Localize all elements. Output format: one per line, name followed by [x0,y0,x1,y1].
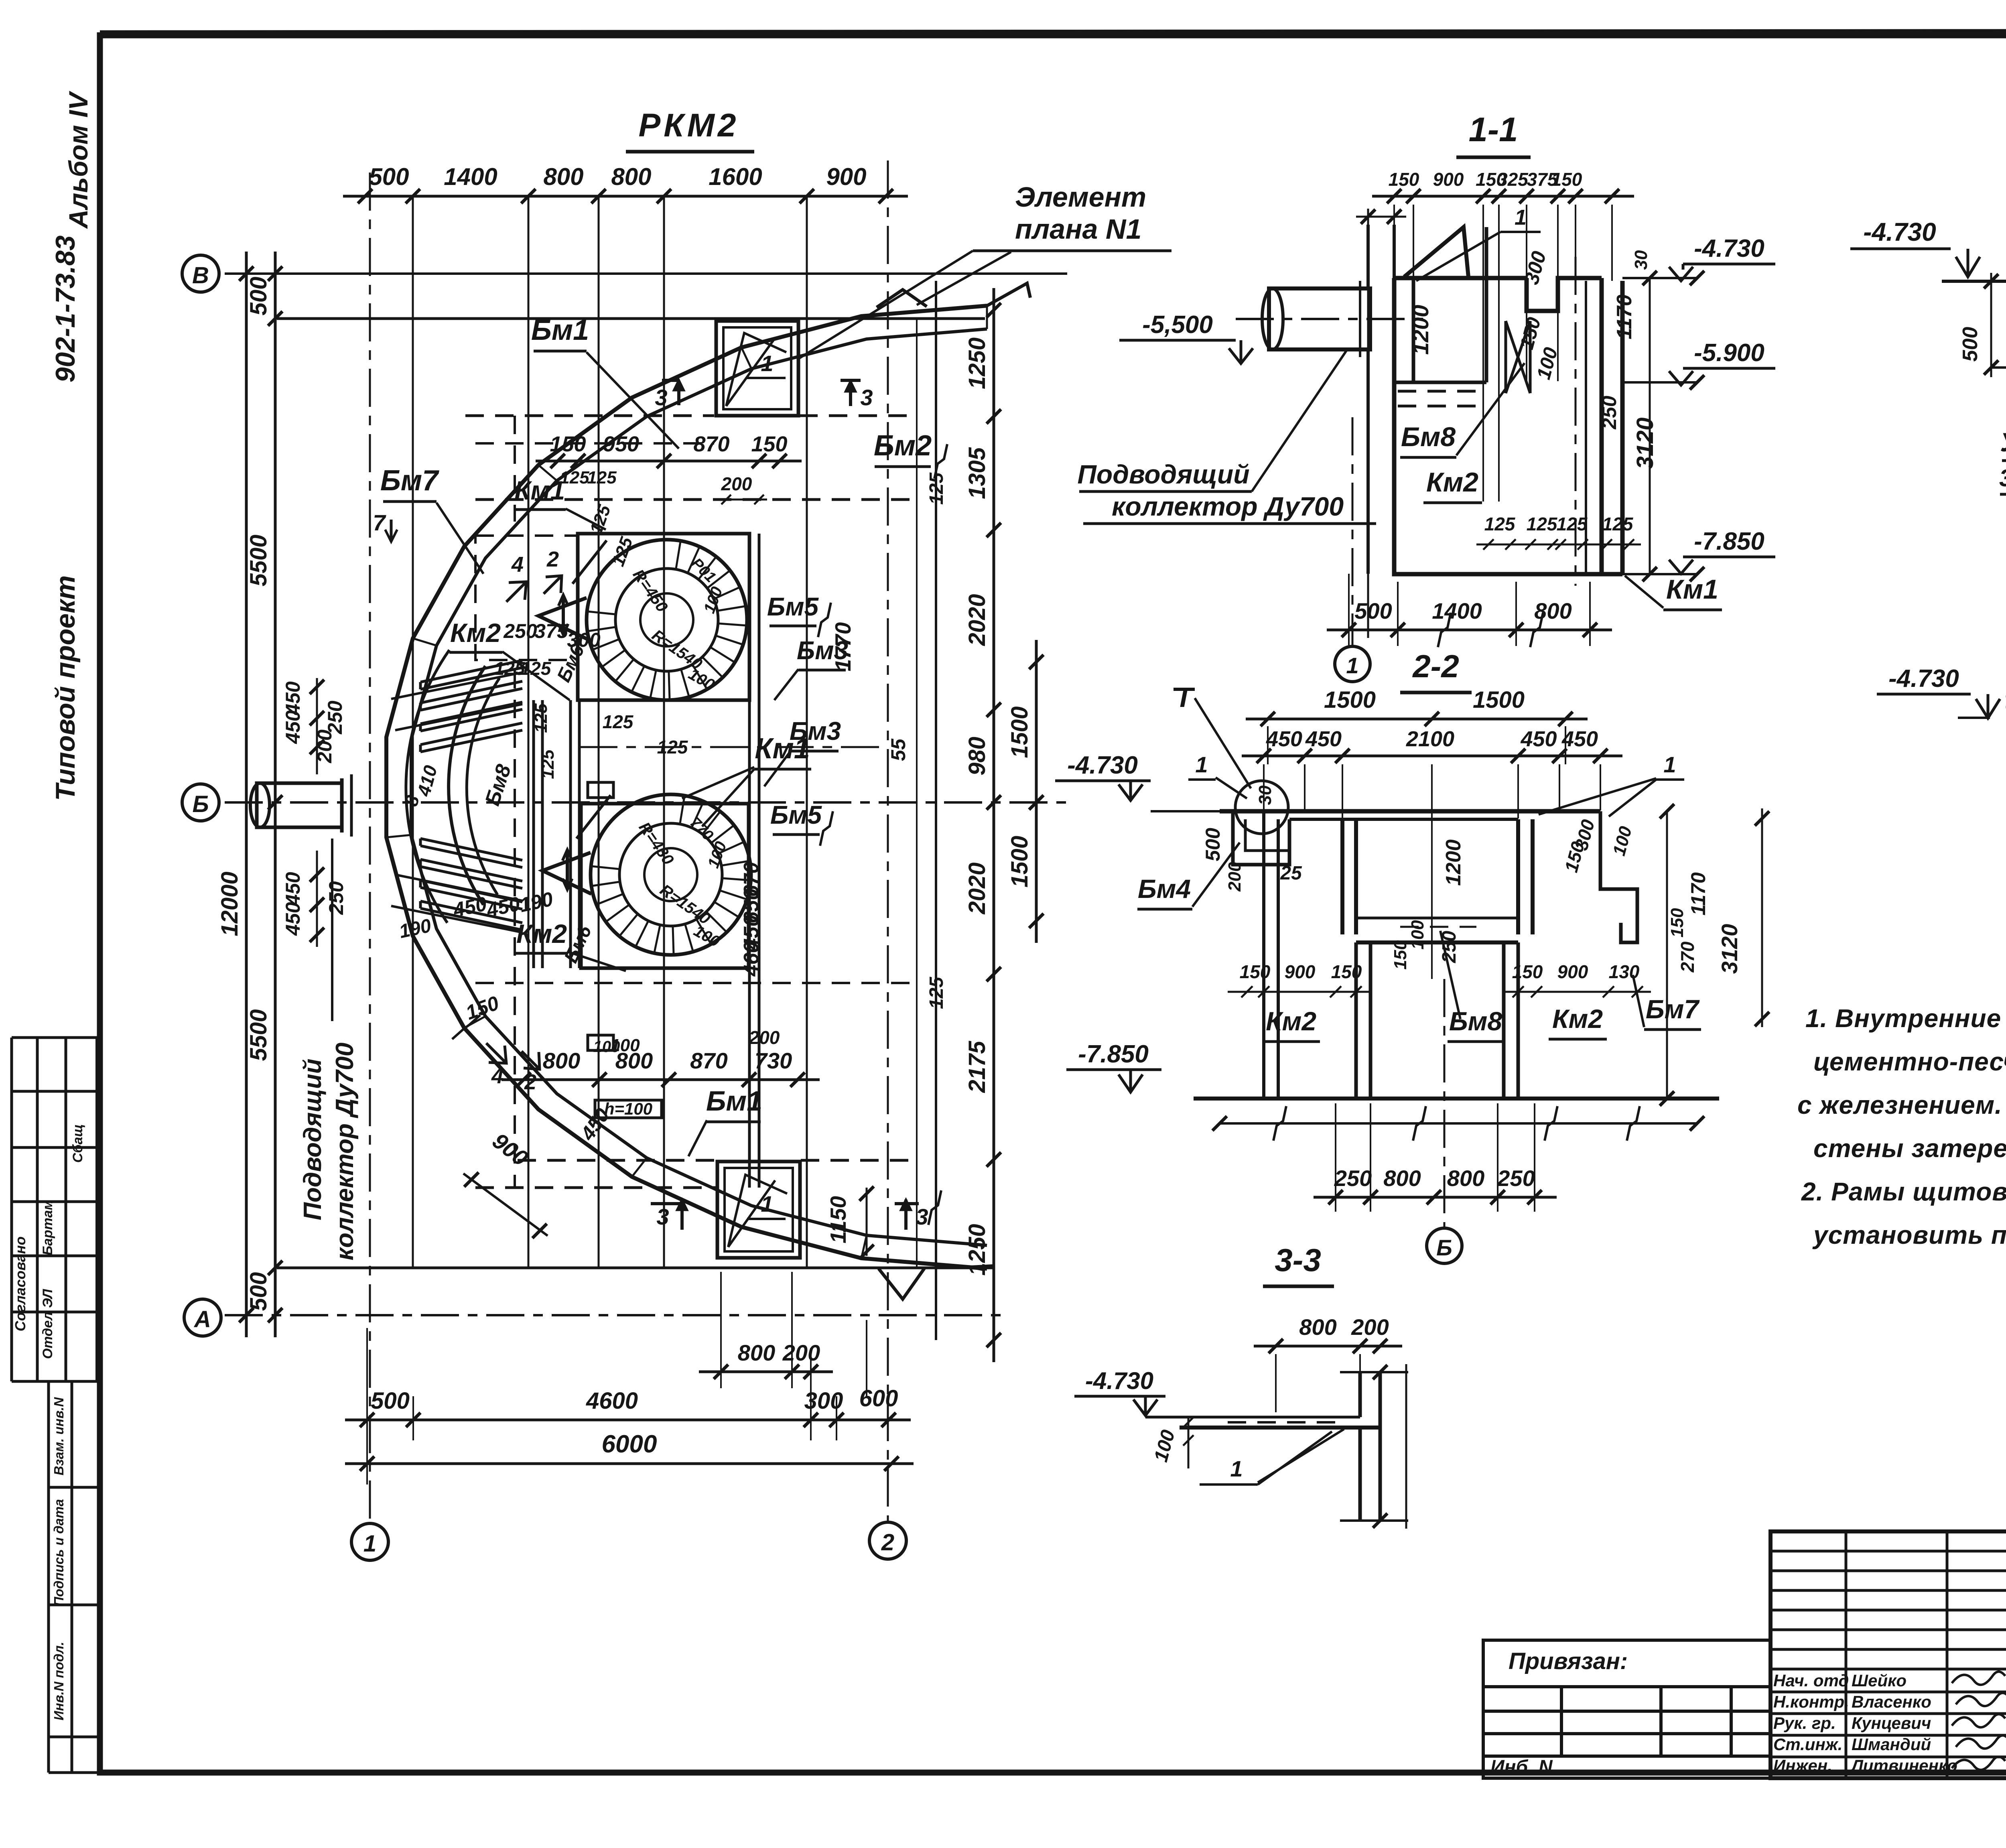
svg-text:Бм1: Бм1 [531,314,589,346]
svg-text:1: 1 [1346,653,1358,678]
svg-text:125: 125 [1484,514,1516,534]
dashed wall lines bottom row [518,1159,717,1162]
svg-text:Отдел ЭЛ: Отдел ЭЛ [40,1289,55,1359]
section cut arrows 4 and 2 lower [486,1043,506,1063]
svg-text:800: 800 [543,1048,580,1073]
svg-text:Бм7: Бм7 [1646,994,1700,1024]
svg-text:30: 30 [1631,250,1651,270]
axis circle A [184,1299,221,1336]
svg-text:Бартам: Бартам [40,1200,55,1255]
svg-text:200: 200 [1351,1314,1389,1340]
title block: left table Privyazan [1483,1640,1770,1778]
section 3-3 body [1145,1416,1360,1419]
svg-text:с железнением. На участке ус: с железнением. На участке установки реше… [1797,1091,2006,1119]
svg-text:1400: 1400 [444,163,497,190]
plan vertical axis 1 [369,173,371,1523]
svg-text:1170: 1170 [1613,294,1636,339]
svg-text:1. Внутренние поверхности ло: 1. Внутренние поверхности лотков оштукат… [1805,1004,2006,1033]
svg-text:450: 450 [1305,727,1342,751]
svg-text:1: 1 [363,1531,376,1557]
svg-text:1-1: 1-1 [1469,111,1518,149]
lower row dashed line [475,982,917,984]
svg-text:500: 500 [371,1388,410,1414]
node I detail circle in 2-2 [1235,781,1288,834]
svg-text:1: 1 [1663,752,1676,777]
svg-text:250: 250 [325,881,347,915]
svg-text:870: 870 [690,1048,727,1073]
svg-text:Нач. отд: Нач. отд [1773,1671,1849,1690]
plan left dims 500 5500 5500 500 [246,252,282,1337]
svg-text:-7.850: -7.850 [1078,1040,1149,1068]
curved inlet wall arcs [449,666,485,905]
svg-text:Инб. N: Инб. N [1490,1757,1553,1778]
svg-text:500: 500 [369,163,409,190]
section 3-3 dims 800 200 [1254,1314,1402,1353]
svg-text:Н.контр.: Н.контр. [1773,1692,1849,1711]
svg-text:Бм4: Бм4 [1138,874,1191,904]
svg-text:Привязан:: Привязан: [1509,1648,1628,1674]
section marker 3 up (bottom right) [904,1200,908,1230]
svg-text:-4.730: -4.730 [1888,665,1959,692]
svg-text:375: 375 [534,620,569,642]
h=100 box [595,1100,662,1118]
svg-text:Бм1: Бм1 [706,1085,762,1117]
dashed corridor verticals [514,416,516,522]
central dividing wall between volute rooms [534,700,579,968]
svg-text:1150: 1150 [826,1196,851,1243]
svg-text:800: 800 [611,163,651,190]
mid horizontal chain between rooms [579,746,888,748]
svg-text:600: 600 [859,1385,898,1411]
svg-text:125: 125 [1602,514,1634,534]
svg-text:800: 800 [1447,1166,1484,1191]
svg-text:Подводящий: Подводящий [1077,459,1249,489]
inlet pipe at axis B [257,783,342,827]
axis circle B [182,784,219,821]
section 2-2 floor [1194,1097,1719,1101]
3120 dim left of detail I (section 2-2 column) [1761,808,1763,1027]
svg-text:270: 270 [1677,941,1698,973]
arc bottom end beak [879,1266,994,1299]
svg-text:3: 3 [655,385,667,410]
plan vertical axis 2 [887,160,889,1523]
svg-text:900: 900 [1557,961,1588,982]
svg-text:1200: 1200 [1408,305,1433,355]
svg-text:3120: 3120 [1632,417,1658,469]
svg-text:450: 450 [282,710,304,744]
svg-text:-4.730: -4.730 [1863,217,1936,246]
T junction blocks on central wall [588,782,613,798]
svg-text:30: 30 [1255,785,1275,805]
svg-text:1: 1 [761,1191,773,1216]
svg-text:250: 250 [503,620,537,642]
svg-text:1305: 1305 [964,447,990,499]
svg-text:Бм2: Бм2 [874,430,932,462]
section 2-2 dim 1500 1500 [1246,687,1588,726]
svg-text:коллектор Ду700: коллектор Ду700 [331,1042,359,1260]
svg-text:150: 150 [1389,169,1419,190]
svg-text:125: 125 [926,977,947,1009]
svg-text:500: 500 [246,1272,272,1311]
upper volute scroll [538,540,747,700]
svg-text:250: 250 [324,701,346,735]
upper volute room [578,534,749,700]
svg-text:-5,500: -5,500 [1142,311,1213,339]
svg-text:800: 800 [543,163,583,190]
svg-text:1500: 1500 [1007,706,1033,758]
upper left equipment room dashed [475,536,578,660]
svg-text:Бм3: Бм3 [790,717,841,745]
svg-text:1500: 1500 [1007,836,1033,887]
svg-text:1170: 1170 [1687,872,1710,916]
svg-text:2-2: 2-2 [1412,648,1459,684]
svg-text:500: 500 [246,277,272,316]
svg-text:Бм5: Бм5 [770,800,822,829]
svg-text:450: 450 [1266,727,1302,751]
svg-text:125: 125 [1527,514,1558,534]
plan bottom wall chord line [277,1267,995,1269]
svg-text:-7.850: -7.850 [1694,528,1764,555]
svg-text:РКМ2: РКМ2 [638,107,739,144]
svg-text:-4.730: -4.730 [1067,751,1138,779]
svg-text:Инжен.: Инжен. [1773,1756,1832,1775]
svg-text:800: 800 [1299,1314,1336,1340]
svg-text:800: 800 [1383,1166,1421,1191]
section 2-2 top slab [1220,809,1600,814]
embedded brace X in section 1-1 [1506,321,1530,393]
svg-text:150: 150 [1512,961,1543,982]
svg-text:125: 125 [538,749,558,779]
svg-text:450: 450 [282,872,304,906]
svg-text:30: 30 [2002,692,2006,713]
plan outer wall faceted arc band [386,306,987,1269]
svg-text:125: 125 [520,658,552,679]
svg-text:Инв.N подл.: Инв.N подл. [51,1642,66,1720]
bottom small dims 150 900 150 left [1228,991,1372,993]
plan right main dim chain [964,288,1001,1362]
125 dims bottom of 1-1 [1476,544,1641,546]
svg-text:450: 450 [1520,727,1557,751]
svg-text:2100: 2100 [1406,727,1454,751]
svg-text:Взам. инв.N: Взам. инв.N [51,1397,66,1475]
svg-text:150: 150 [1391,940,1410,970]
svg-text:5500: 5500 [246,534,272,586]
bottom small dims 150 900 130 right [1502,991,1651,993]
levels right of section 1-1 [1622,277,1697,279]
svg-text:125: 125 [926,472,947,505]
svg-text:-4.730: -4.730 [1085,1367,1153,1394]
bottom dim chain 250 800 800 250 [1314,1166,1557,1204]
section cut arrows 4 and 2 upper room [506,582,526,602]
svg-text:Альбом IV: Альбом IV [63,91,93,229]
svg-text:3: 3 [656,1204,669,1229]
svg-text:Ст.инж.: Ст.инж. [1773,1735,1842,1754]
inlet pipe in section 1-1 [1269,288,1370,349]
svg-text:980: 980 [964,737,990,776]
svg-text:7: 7 [373,510,386,535]
axis circle 2 bottom [869,1522,906,1559]
dashed wall lines top row [465,414,714,417]
svg-text:Подводящий: Подводящий [299,1058,327,1220]
svg-text:I: I [1180,682,1188,713]
svg-text:Б: Б [1436,1235,1452,1260]
svg-text:500: 500 [1202,828,1224,861]
svg-text:1600: 1600 [709,163,762,190]
svg-text:100: 100 [593,1038,620,1056]
svg-text:Кунцевич: Кунцевич [1852,1714,1931,1732]
svg-text:Согласовано: Согласовано [12,1237,28,1332]
svg-text:800: 800 [738,1340,775,1365]
plan axis line V [225,272,1067,275]
axis circle 1 below section 1-1 [1335,646,1370,682]
svg-text:Км2: Км2 [1552,1004,1603,1034]
svg-text:3: 3 [860,385,873,410]
svg-text:Типовой проект: Типовой проект [50,575,81,801]
svg-text:200: 200 [749,1027,780,1048]
svg-text:250: 250 [1334,1166,1372,1191]
svg-text:Б: Б [192,791,209,817]
bottom window opening frame [717,1162,800,1258]
corbel left 2-2 [1233,811,1289,865]
svg-text:902-1-73.83: 902-1-73.83 [50,235,81,382]
svg-text:125: 125 [587,468,617,487]
svg-text:200: 200 [721,473,752,494]
svg-text:Км1: Км1 [1666,574,1718,605]
svg-text:100: 100 [1408,920,1427,950]
svg-text:900: 900 [826,163,866,190]
svg-text:55: 55 [887,738,910,761]
svg-text:1500: 1500 [1324,687,1376,713]
svg-text:Шейко: Шейко [1852,1671,1907,1690]
svg-text:Сбащ: Сбащ [70,1124,85,1163]
svg-text:1250: 1250 [964,1224,990,1275]
svg-text:450: 450 [282,902,304,936]
svg-text:12000: 12000 [217,871,243,936]
svg-text:Км2: Км2 [450,618,501,648]
svg-text:-5.900: -5.900 [1694,339,1764,367]
right wall of volute rooms vertical [749,534,759,1188]
svg-text:1200: 1200 [1442,839,1465,886]
svg-text:1: 1 [1195,752,1208,777]
svg-text:1: 1 [1230,1456,1243,1481]
svg-text:150: 150 [1240,961,1271,982]
svg-text:Км1: Км1 [514,475,565,505]
section 1-1 left small dim [1356,216,1406,218]
svg-text:2: 2 [546,547,559,571]
axis circle V [182,255,219,292]
svg-text:250: 250 [1497,1166,1535,1191]
svg-text:цементно-песчаным раствором: цементно-песчаным раствором состава 1:2 [1813,1047,2006,1076]
plan top dimension chain [343,163,908,203]
svg-text:950: 950 [603,432,639,456]
plan bottom dims [699,1340,833,1379]
svg-text:установить по механическим ч: установить по механическим чертежам. [1812,1220,2006,1249]
svg-text:Бм3: Бм3 [797,636,848,665]
section marker 3 (top right) [849,379,852,406]
svg-text:В: В [192,262,209,288]
svg-text:900: 900 [1285,961,1316,982]
svg-text:150: 150 [1551,169,1582,190]
arc top end beak [877,283,1030,307]
left margin column Vzam/Podpis/Inv [49,1381,97,1773]
svg-text:2175: 2175 [964,1041,990,1093]
axis circle B below 2-2 [1427,1228,1462,1263]
svg-text:3: 3 [916,1204,928,1229]
svg-text:325: 325 [1497,169,1529,190]
svg-text:Элемент: Элемент [1015,181,1146,213]
plan construction grid verticals [413,196,807,1268]
svg-text:Км2: Км2 [516,919,567,948]
svg-text:25: 25 [1280,863,1302,884]
svg-text:Км2: Км2 [1266,1006,1316,1036]
svg-text:200: 200 [1225,862,1245,892]
svg-text:1500: 1500 [1473,687,1525,713]
svg-text:200: 200 [782,1340,820,1365]
right step 2-2 [1600,811,1637,942]
svg-text:450: 450 [1561,727,1598,751]
svg-text:4: 4 [511,552,524,577]
svg-text:2: 2 [881,1529,894,1556]
svg-text:6000: 6000 [602,1430,657,1458]
svg-text:2. Рамы щитовых затворов и р: 2. Рамы щитовых затворов и ремонтных реш… [1801,1177,2006,1206]
svg-text:125: 125 [531,703,551,733]
extra long channel slabs reaching the arc [391,672,522,932]
svg-text:1400: 1400 [1432,598,1482,623]
svg-text:125: 125 [560,468,589,487]
top window opening frame [716,321,798,416]
svg-text:150: 150 [1667,908,1687,938]
plan top wall chord line [277,317,985,320]
svg-text:плана N1: плана N1 [1015,213,1141,245]
svg-text:870: 870 [693,432,729,456]
svg-text:1250: 1250 [964,337,990,389]
svg-text:3-3: 3-3 [1275,1242,1321,1278]
plan axis line B middle [225,801,1067,804]
svg-text:Власенко: Власенко [1852,1692,1931,1711]
svg-text:450: 450 [282,681,304,715]
svg-text:500: 500 [1354,598,1392,623]
section 1-1 bottom dim chain [1327,598,1612,637]
svg-text:150: 150 [751,432,787,456]
svg-text:250: 250 [1598,396,1620,430]
left margin stamp table Soglasovano [12,1038,97,1381]
upper inner dim chain 150 950 870 150 [536,432,802,468]
svg-text:1: 1 [1515,205,1527,229]
upper inlet channel vanes [420,660,522,752]
svg-text:5500: 5500 [246,1009,272,1061]
lower walls 2-2 [1356,942,1518,1099]
svg-text:Подпись и дата: Подпись и дата [51,1499,66,1606]
section marker 3 up (bottom left) [680,1200,684,1230]
svg-text:500: 500 [1959,327,1982,362]
section marker 3 up (top left of window) [677,381,680,405]
plan left dim 12000 [239,252,254,1337]
plan right outer dims 1500 1500 [1007,640,1044,943]
section 1-1 body outline [1394,278,1602,311]
svg-text:730: 730 [755,1048,792,1073]
svg-text:стены затереть цементным ра: стены затереть цементным раствором. [1813,1134,2006,1163]
svg-text:Литвиненко: Литвиненко [1850,1756,1957,1775]
svg-text:125: 125 [1557,514,1588,534]
svg-text:900: 900 [1433,169,1464,190]
svg-text:Рук. гр.: Рук. гр. [1773,1714,1836,1732]
svg-text:Бм8: Бм8 [1449,1006,1502,1036]
svg-text:150: 150 [1331,961,1362,982]
lower volute scroll [542,794,751,955]
svg-text:4: 4 [491,1064,504,1088]
svg-text:коллектор Ду700: коллектор Ду700 [1112,491,1344,521]
svg-text:А: А [193,1306,211,1332]
lower volute room [581,804,749,968]
svg-text:Бм8: Бм8 [1401,422,1456,452]
upper row dashed line [475,442,714,445]
svg-text:3.902.1-10.016: 3.902.1-10.016 [1999,465,2006,491]
svg-text:Бм7: Бм7 [380,465,439,497]
section 2-2 U channel [1342,819,1356,934]
svg-text:Бм5: Бм5 [767,592,819,621]
svg-text:Шмандий: Шмандий [1852,1735,1931,1754]
svg-text:Км2: Км2 [1426,467,1478,498]
svg-text:150: 150 [550,432,586,456]
title block: middle signature table [1770,1531,2006,1778]
axis circle 1 bottom [351,1523,388,1560]
lower inner dim chain 800 800 870 730 [501,1048,820,1087]
section 2-2 dim 450 450 2100 450 450 [1242,727,1622,763]
horizontal dashed mid 7-7 [1991,366,2006,369]
svg-text:3120: 3120 [1717,924,1742,974]
plan axis line A [225,1314,1003,1316]
svg-text:-4.730: -4.730 [1694,235,1764,262]
svg-text:125: 125 [657,737,688,757]
svg-text:125: 125 [603,711,634,732]
lower inlet channel vanes [420,839,522,930]
section 1-1 top dim chain [1372,169,1634,203]
svg-text:2020: 2020 [964,862,990,914]
svg-text:Узел Н: Узел Н [2000,427,2006,457]
svg-text:1: 1 [761,351,773,376]
svg-text:800: 800 [1534,598,1572,623]
svg-text:4600: 4600 [586,1388,638,1414]
svg-text:2020: 2020 [964,594,990,646]
